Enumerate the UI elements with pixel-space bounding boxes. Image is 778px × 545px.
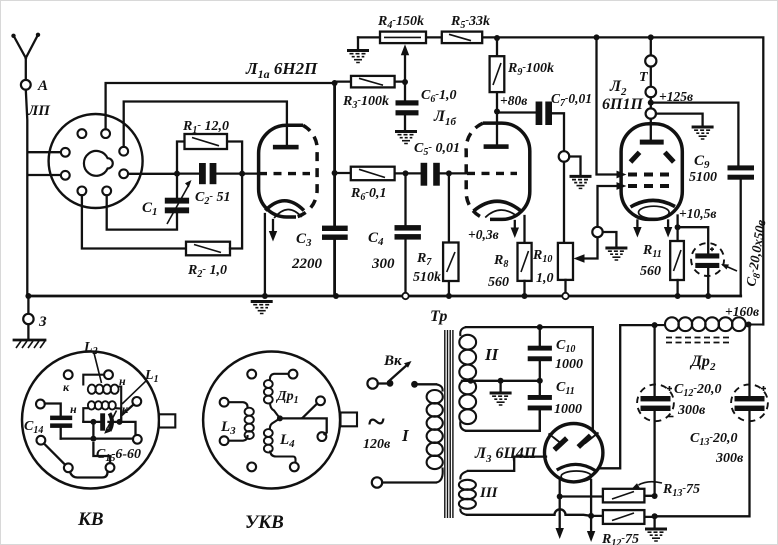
- svg-text:R4-150k: R4-150k: [377, 14, 424, 31]
- grid of Л1а (dashed): [259, 172, 310, 175]
- socket pins: [78, 129, 87, 138]
- svg-text:С12-20,0: С12-20,0: [674, 382, 722, 399]
- svg-text:ЛП: ЛП: [27, 103, 51, 119]
- ground under C6: [395, 132, 417, 144]
- svg-text:А: А: [37, 78, 48, 94]
- pin lead: [123, 405, 134, 415]
- capacitor C5: [406, 172, 449, 174]
- wire pin down to R2: [82, 195, 186, 248]
- cathode of Л2: [631, 200, 676, 207]
- resistor R9: [496, 38, 498, 112]
- capacitor C2: [177, 172, 242, 174]
- capacitor C4: [404, 173, 406, 296]
- cathode wire to R8: [523, 216, 525, 243]
- svg-text:R2- 1,0: R2- 1,0: [187, 263, 227, 280]
- junctions on C12 column: [652, 493, 658, 499]
- capacitor C7: [497, 113, 564, 152]
- wire +125 node to C9 column: [651, 103, 739, 166]
- wire C7 node down to R10: [563, 162, 565, 243]
- svg-text:С5- 0,01: С5- 0,01: [414, 141, 460, 158]
- winding III (heater): [460, 471, 468, 515]
- resistor R12: [591, 516, 656, 517]
- wire pin down to C1 bottom: [107, 195, 177, 229]
- cathode right wire to R11/C8: [676, 216, 678, 228]
- svg-text:R5-33k: R5-33k: [450, 14, 490, 31]
- wiper of R4: [404, 56, 406, 82]
- winding I (primary): [436, 384, 443, 482]
- wire antenna to socket and down to bus: [26, 90, 61, 296]
- svg-text:II: II: [484, 345, 500, 364]
- bottom bus: [27, 295, 740, 298]
- coil L3: [229, 402, 248, 441]
- wire node to ground: [656, 114, 703, 126]
- node Т (test point): [648, 34, 654, 40]
- node circle on C7 line: [559, 151, 570, 162]
- capacitor C12 (electrolytic, dashed circle): [653, 325, 655, 496]
- potentiometer R10: [558, 243, 573, 280]
- main bus vertical x334.6: [333, 83, 336, 296]
- svg-text:к: к: [63, 380, 70, 394]
- junction R5 right: [494, 35, 500, 41]
- capacitor C6: [404, 82, 406, 131]
- wire pin to anode wire y101.5: [124, 102, 287, 147]
- ground: [605, 248, 627, 260]
- junction node at grid wire: [174, 171, 180, 177]
- choke Др2: [655, 323, 764, 326]
- wire node up to screen grid of Л2: [598, 186, 619, 227]
- cathode of Л3: [557, 464, 596, 470]
- terminal З: [25, 293, 31, 299]
- svg-text:R1- 12,0: R1- 12,0: [182, 119, 229, 136]
- bottom wiring of КВ: [44, 444, 65, 465]
- ground under C12 column: [645, 529, 667, 541]
- svg-text:5100: 5100: [689, 170, 717, 185]
- tube Л2 (output pentode): [621, 124, 682, 220]
- svg-text:2200: 2200: [291, 256, 323, 272]
- wire pin right to grid node: [128, 173, 177, 175]
- svg-text:+80в: +80в: [500, 93, 527, 108]
- module УКВ (plug-in coil unit): [203, 352, 340, 489]
- junction C5 right / grid Л1б: [446, 170, 452, 176]
- top supply bus y37.4: [358, 37, 763, 324]
- svg-text:З: З: [38, 314, 47, 330]
- terminal circle bottom: [372, 477, 382, 487]
- coil L1: [88, 401, 116, 409]
- potentiometer R4: [380, 32, 426, 43]
- svg-text:300: 300: [371, 256, 395, 272]
- svg-text:Л1а 6Н2П: Л1а 6Н2П: [245, 59, 318, 81]
- anode of Л1б: [484, 144, 509, 149]
- wire to C8: [678, 227, 709, 253]
- svg-text:КВ: КВ: [77, 509, 104, 530]
- socket ЛП (tube socket): [49, 114, 143, 208]
- heater lead right with arrow: [590, 480, 592, 532]
- cathode of Л1а: [265, 201, 304, 211]
- capacitor C10: [539, 327, 541, 379]
- heater arrows of Л2: [636, 221, 638, 229]
- cathode wire to bus: [264, 214, 266, 296]
- svg-text:н: н: [119, 374, 126, 388]
- resistor R3: [335, 80, 405, 82]
- wires C14/C15 to pins: [61, 437, 133, 439]
- node +125в: [650, 67, 652, 87]
- wire III top to rectifier cathode: [468, 457, 546, 471]
- svg-text:+10,5в: +10,5в: [679, 206, 716, 221]
- svg-text:R3-100k: R3-100k: [342, 94, 389, 111]
- node circle below +125: [646, 108, 656, 118]
- svg-text:R6-0,1: R6-0,1: [350, 186, 387, 203]
- screen grid of Л2 (dashed): [628, 184, 676, 188]
- tube Л1а (triode half, dashed shared envelope): [259, 125, 303, 217]
- wire top bus down to grid of Л2: [597, 37, 619, 174]
- resistor R11: [676, 227, 678, 241]
- svg-text:С6-1,0: С6-1,0: [421, 88, 457, 105]
- choke Др1: [270, 374, 289, 419]
- svg-text:300в: 300в: [677, 403, 706, 418]
- svg-text:III: III: [479, 485, 499, 501]
- wire pin to top bus y83: [106, 83, 335, 129]
- winding II (HV secondary): [460, 327, 466, 431]
- svg-text:1000: 1000: [554, 402, 582, 417]
- node circle (switch contact): [592, 227, 602, 237]
- wire node to ground: [603, 232, 617, 247]
- coil L4: [270, 418, 296, 462]
- wiper of R10: [584, 237, 598, 258]
- junction and wires to right pins: [277, 415, 283, 421]
- wire III bottom to R12 line (with hop): [467, 509, 591, 516]
- terminal A: [21, 80, 31, 90]
- pins of УКВ: [247, 370, 256, 379]
- resistor R1: [177, 142, 242, 174]
- svg-text:УКВ: УКВ: [245, 512, 284, 533]
- capacitor C1 (variable): [176, 174, 178, 198]
- svg-text:R9-100k: R9-100k: [507, 61, 554, 78]
- ground on bus below Л1а: [251, 302, 273, 314]
- chassis ground under З: [14, 339, 45, 342]
- wire II top to rectifier anode: [466, 327, 593, 430]
- beam plates of Л2: [631, 152, 640, 162]
- capacitor C8 (electrolytic, dashed circle): [691, 243, 724, 276]
- svg-text:~: ~: [367, 403, 385, 439]
- svg-text:560: 560: [488, 275, 509, 290]
- center tap of II with ground: [462, 380, 540, 382]
- heater arrow of Л1а: [272, 220, 274, 233]
- heater lead left with arrow: [559, 479, 561, 529]
- wire node down to anode Л2: [650, 119, 652, 140]
- svg-text:1000: 1000: [555, 357, 583, 372]
- coil L2: [83, 375, 121, 421]
- resistor R2: [186, 242, 230, 256]
- pointer arrow to C8: [725, 266, 738, 272]
- capacitor C15 (trimmer): [83, 421, 102, 423]
- svg-text:С2- 51: С2- 51: [195, 190, 231, 207]
- anode of Л2: [640, 140, 664, 145]
- svg-text:+0,3в: +0,3в: [468, 227, 499, 242]
- capacitor C14: [45, 404, 61, 439]
- wire grid to tube Л1а: [242, 172, 259, 174]
- anodes of Л3: [549, 434, 563, 445]
- svg-text:510k: 510k: [413, 270, 441, 285]
- svg-text:300в: 300в: [715, 451, 744, 466]
- capacitor C13 (electrolytic, dashed circle): [748, 325, 750, 397]
- resistor R6: [335, 172, 406, 175]
- svg-text:Т: Т: [639, 70, 649, 85]
- svg-text:120в: 120в: [363, 437, 391, 452]
- svg-text:1,0: 1,0: [536, 271, 554, 286]
- capacitor C11: [528, 395, 552, 400]
- svg-text:н: н: [70, 402, 77, 416]
- transformer Тр core: [445, 330, 453, 518]
- ground at R4 left: [357, 37, 359, 49]
- tube Л3 (rectifier): [545, 424, 603, 482]
- control grid of Л2 (dashed): [628, 173, 676, 177]
- wire node to ground: [569, 157, 580, 176]
- capacitor C3: [322, 226, 348, 231]
- svg-text:6П1П: 6П1П: [602, 96, 643, 113]
- grid of Л1б (dashed): [467, 172, 517, 175]
- svg-text:+160в: +160в: [725, 304, 759, 319]
- capacitor C9: [728, 165, 755, 170]
- cathode of Л1б: [474, 201, 522, 211]
- resistor R8: [518, 243, 532, 281]
- wire R12 line to C13 column: [655, 411, 750, 516]
- ground: [570, 176, 592, 188]
- wire R9 to anode Л1б: [496, 112, 498, 146]
- tube Л1б (triode half, dashed shared envelope): [483, 123, 530, 219]
- svg-text:Вк: Вк: [383, 353, 402, 369]
- resistor R7: [448, 173, 450, 296]
- svg-text:С13-20,0: С13-20,0: [690, 431, 738, 448]
- resistor R13: [560, 495, 657, 498]
- antenna: [14, 36, 38, 80]
- heater arrow of Л1б: [514, 221, 516, 229]
- anode of Л1а: [273, 145, 299, 150]
- svg-text:Тр: Тр: [430, 308, 447, 325]
- svg-text:560: 560: [640, 264, 661, 279]
- wire rectifier output up to filter: [599, 325, 655, 468]
- pins of КВ: [64, 370, 73, 379]
- resistor R5: [442, 32, 482, 43]
- module КВ (plug-in coil unit): [22, 352, 159, 489]
- wire II bottom frame: [466, 410, 540, 430]
